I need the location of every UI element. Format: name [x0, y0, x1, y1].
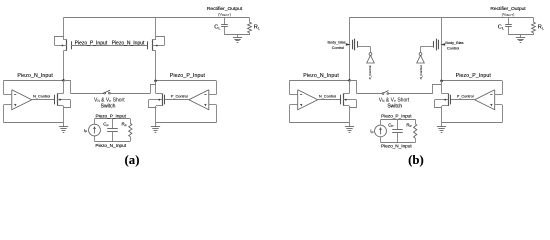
svg-text:Switch: Switch	[387, 103, 402, 109]
svg-text:RL: RL	[538, 24, 545, 30]
svg-text:(a): (a)	[125, 153, 140, 167]
svg-text:CP: CP	[103, 121, 108, 127]
svg-text:CL: CL	[498, 24, 505, 30]
svg-text:N_Control: N_Control	[319, 94, 336, 98]
svg-text:Piezo_P_Input: Piezo_P_Input	[75, 41, 108, 47]
svg-text:Piezo_P_Input: Piezo_P_Input	[170, 73, 206, 79]
svg-text:Piezo_N_Input: Piezo_N_Input	[112, 41, 145, 47]
svg-text:CL: CL	[214, 24, 221, 30]
svg-text:P_Control: P_Control	[171, 94, 188, 98]
svg-text:Control: Control	[332, 46, 344, 50]
svg-text:(VRECT): (VRECT)	[502, 11, 516, 17]
svg-text:Piezo_N_Input: Piezo_N_Input	[95, 143, 126, 148]
svg-text:Piezo_N_Input: Piezo_N_Input	[303, 73, 339, 79]
svg-text:N_Control: N_Control	[419, 65, 423, 79]
svg-text:IP: IP	[370, 129, 373, 135]
svg-text:RL: RL	[254, 24, 261, 30]
svg-text:Switch: Switch	[101, 103, 116, 109]
svg-text:Piezo_N_Input: Piezo_N_Input	[381, 143, 412, 148]
svg-text:Piezo_P_Input: Piezo_P_Input	[95, 114, 126, 119]
svg-text:Piezo_P_Input: Piezo_P_Input	[456, 73, 492, 79]
svg-text:Piezo_P_Input: Piezo_P_Input	[381, 114, 412, 119]
svg-text:Body_Bias: Body_Bias	[327, 41, 345, 45]
svg-text:(b): (b)	[408, 153, 424, 167]
svg-text:P_Control: P_Control	[368, 65, 372, 79]
svg-text:Rectifier_Output: Rectifier_Output	[207, 6, 243, 12]
svg-text:Piezo_N_Input: Piezo_N_Input	[17, 73, 53, 79]
svg-text:P_Control: P_Control	[457, 94, 474, 98]
svg-text:RP: RP	[406, 122, 411, 128]
svg-text:(VRECT): (VRECT)	[218, 11, 232, 17]
svg-text:CP: CP	[388, 122, 393, 128]
svg-text:Body_Bias: Body_Bias	[445, 41, 463, 45]
svg-text:Rectifier_Output: Rectifier_Output	[490, 6, 526, 12]
svg-text:N_Control: N_Control	[33, 94, 50, 98]
svg-text:Control: Control	[447, 47, 459, 51]
svg-text:IP: IP	[84, 128, 87, 134]
svg-text:RP: RP	[122, 121, 127, 127]
